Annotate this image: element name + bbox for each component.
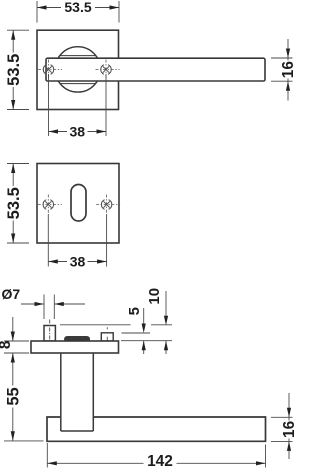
- handle neck side view: [60, 353, 62, 431]
- dimension 53.5 left (rose height): extension lines: [7, 30, 29, 109]
- retaining nub on plate: [101, 333, 113, 341]
- screw right on rose: [96, 60, 120, 79]
- svg-text:53.5: 53.5: [5, 54, 23, 86]
- extension line from stub top (10 ref), left part: [60, 324, 131, 326]
- extension line from stub top (10 ref), right part: [151, 324, 172, 326]
- svg-text:38: 38: [70, 254, 86, 270]
- lever bar (grip) front view: [46, 58, 265, 81]
- square rose plate: [37, 30, 119, 109]
- svg-text:16: 16: [280, 61, 295, 79]
- dimension 16 (bottom bar): outside arrows and rotated text: [281, 393, 298, 459]
- svg-text:55: 55: [5, 387, 23, 405]
- screw left on key rose: [38, 195, 62, 214]
- nub centerline: [106, 327, 108, 346]
- dimension 5/10: up arrows below plate-top extension: [142, 341, 169, 354]
- extension line from nub top (5 ref): [122, 332, 151, 334]
- spindle stub centerline: [49, 320, 51, 346]
- lever bar side view (top edge interrupted by neck): [47, 417, 266, 441]
- round rose circle: [55, 47, 100, 92]
- rose collar chord line upper: [60, 55, 96, 57]
- svg-text:10: 10: [146, 288, 163, 305]
- dimension 8: extension lines: [4, 341, 29, 353]
- screw right on key rose: [96, 195, 120, 214]
- dimension 53.5 top: extension lines: [37, 1, 119, 23]
- dimension 53.5 top: dimension line with arrows: [37, 0, 119, 15]
- rose collar chord line lower: [60, 83, 96, 85]
- svg-text:142: 142: [147, 453, 173, 470]
- dimension 16 right: arrows outside and rotated text: [280, 39, 297, 101]
- dimension 38 bottom of top section: extension lines: [49, 74, 107, 136]
- screw left on rose: [38, 60, 62, 79]
- dimension 5: line, arrow down to nub-top line, text: [126, 307, 146, 333]
- dimension 16 right (bar height): extension lines: [271, 58, 293, 81]
- dimension 10: line, arrow down to stub-top line, text: [146, 288, 168, 325]
- dimension 38 (key rose): dimension line arrows text: [48, 254, 106, 270]
- extension line at bar bottom left: [4, 440, 44, 442]
- spindle stub: [44, 326, 55, 342]
- dimension 142: dimension line arrows text: [47, 453, 265, 470]
- svg-text:53.5: 53.5: [64, 0, 91, 15]
- rose plate side view: [31, 341, 119, 353]
- keyhole slot oval: [71, 185, 86, 222]
- dimension 53.5 left (key rose): dimension line arrows text: [5, 164, 23, 244]
- svg-text:Ø7: Ø7: [2, 286, 21, 302]
- extension line from plate top: [121, 340, 172, 342]
- dimension 8: outside arrows and text: [0, 317, 15, 349]
- dimension 53.5 left (key rose): extension lines: [7, 164, 29, 244]
- spring clip bump on plate: [65, 337, 90, 341]
- square key rose plate: [37, 164, 119, 244]
- svg-text:16: 16: [281, 420, 295, 438]
- dimension 55: line, shared up arrow at plate bottom, down arrow at bar bottom, text: [5, 353, 23, 441]
- dimension 16 (bottom bar): extension lines: [271, 417, 293, 441]
- svg-text:8: 8: [0, 340, 14, 349]
- dimension 53.5 left: dimension line with arrows and rotated text: [5, 30, 23, 109]
- dimension 142: extension lines: [47, 443, 265, 468]
- dimension 38: dimension line arrows and text: [49, 124, 107, 140]
- svg-text:38: 38: [70, 124, 86, 140]
- dimension 38 (key rose): extension lines: [48, 214, 106, 267]
- dimension Ø7: leader arrows: [21, 302, 85, 306]
- svg-text:53.5: 53.5: [5, 187, 23, 219]
- dimension Ø7: extension lines above spindle stub: [44, 295, 54, 320]
- svg-text:5: 5: [126, 307, 143, 315]
- neck-bar joint line: [61, 430, 94, 432]
